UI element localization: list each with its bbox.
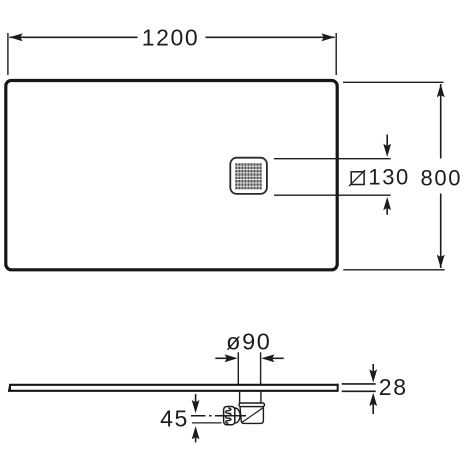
dimension o90 left extension line [237, 352, 239, 384]
square-section symbol diagonal [349, 170, 365, 186]
outlet centerline dash-dot [191, 415, 246, 417]
dimension 1200 left arrowhead [9, 33, 22, 41]
svg-text:130: 130 [368, 164, 410, 189]
drain pipe right wall [260, 392, 262, 404]
svg-text:28: 28 [379, 374, 408, 400]
drain grate grille [235, 163, 262, 190]
dimension 130 lower arrow shaft [386, 207, 388, 215]
tray profile side view top line [9, 384, 338, 386]
dimension 130 upper arrowhead pointing down [383, 144, 391, 157]
svg-text:45: 45 [160, 405, 189, 431]
dimension 28 lower arrow shaft [372, 403, 374, 414]
siphon flange [239, 403, 265, 407]
dimension 1200 right extension line [335, 33, 337, 75]
dimension o90 right extension line [260, 352, 262, 384]
svg-text:800: 800 [421, 165, 463, 190]
svg-text:ø90: ø90 [226, 328, 271, 354]
dimension 1200 line right segment [206, 36, 335, 38]
dimension 800 upper arrowhead pointing up [437, 84, 445, 97]
dimension 130 lower extension line [274, 194, 391, 196]
dimension 45 lower arrowhead pointing up [192, 426, 200, 439]
dimension 1200 right arrowhead [322, 33, 335, 41]
dimension o90 right arrow shaft [271, 357, 284, 359]
corrugated nut serpentine [226, 408, 231, 423]
siphon body diagonal [241, 408, 263, 423]
dimension o90 right arrowhead pointing left [261, 354, 274, 362]
dimension 800 line upper segment [440, 84, 442, 159]
dimension 1200 line left segment [9, 36, 137, 38]
dimension 130 lower arrowhead pointing up [383, 197, 391, 210]
dimension 28 upper extension line [342, 383, 376, 385]
dimension 28 lower extension line [342, 390, 376, 392]
siphon body [240, 406, 263, 423]
dimension 45 upper arrowhead pointing down [192, 400, 200, 413]
dimension 130 upper arrow shaft [386, 135, 388, 148]
tray profile left end cap [8, 384, 11, 392]
dimension 130 upper extension line [274, 158, 391, 160]
tray profile right end cap [337, 384, 339, 392]
dimension 1200 left extension line [7, 33, 9, 75]
drain grate frame [230, 158, 267, 194]
dimension 45 lower arrow shaft [195, 436, 197, 442]
dimension o90 left arrowhead pointing right [225, 354, 238, 362]
square-section symbol box [351, 172, 364, 185]
dimension o90 left arrow shaft [215, 357, 228, 359]
dimension 800 line lower segment [440, 194, 442, 269]
siphon outlet dome [235, 408, 240, 423]
dimension 45 lower reference line [192, 422, 222, 424]
dimension 45 upper arrow shaft [195, 394, 197, 404]
dimension 800 lower arrowhead pointing down [437, 255, 445, 268]
svg-text:1200: 1200 [142, 25, 200, 51]
drain pipe left wall [239, 392, 241, 404]
tray outline top view [6, 81, 337, 270]
dimension 800 lower extension line [343, 269, 444, 271]
dimension 800 upper extension line [343, 81, 444, 83]
dimension 28 lower arrowhead pointing up [369, 393, 377, 406]
dimension 28 upper arrowhead pointing down [369, 369, 377, 382]
dimension 28 upper arrow shaft [372, 364, 374, 374]
tray profile side view bottom line [8, 390, 338, 392]
outlet corrugated nut [224, 407, 235, 425]
